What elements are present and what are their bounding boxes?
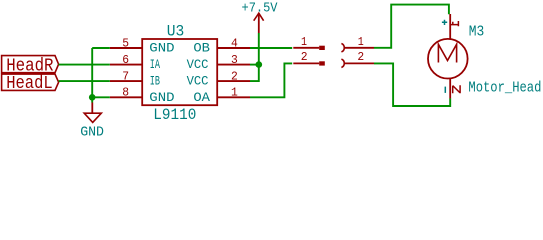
wire GND vertical rail	[91, 48, 93, 103]
pin 5 stub	[110, 47, 142, 49]
connector socket pin 1 hook	[341, 44, 344, 52]
svg-text:IB: IB	[150, 75, 160, 89]
wire pin 4 to connector	[250, 47, 292, 49]
svg-text:OA: OA	[193, 91, 210, 105]
ground symbol stem	[91, 103, 93, 113]
net label HeadL flag	[2, 74, 59, 90]
IC U3 body	[142, 39, 217, 105]
svg-text:OB: OB	[193, 42, 210, 56]
connector socket pin 2 hook	[341, 59, 344, 67]
svg-text:2: 2	[231, 70, 238, 84]
svg-text:L9110: L9110	[153, 106, 196, 124]
svg-text:IA: IA	[150, 58, 160, 72]
wire pin 8 to GND rail	[92, 96, 110, 98]
motor pin 2 rotated number	[453, 85, 460, 93]
svg-text:8: 8	[122, 86, 129, 100]
svg-text:M3: M3	[469, 25, 485, 41]
svg-text:4: 4	[231, 36, 238, 50]
net label HeadR flag	[2, 56, 59, 73]
connector socket pin 2 line	[345, 62, 374, 64]
wire connector pin 1 to motor plus	[374, 5, 449, 48]
connector socket pin 1 line	[345, 47, 374, 49]
connector plug pin 1 line	[293, 47, 319, 49]
pin 7 stub	[110, 80, 142, 82]
junction dot GND rail	[89, 94, 96, 101]
junction dot +7.5V	[255, 61, 262, 68]
svg-text:U3: U3	[167, 23, 185, 41]
motor M3 top terminal stem	[449, 14, 451, 39]
motor M3 bottom terminal stem	[449, 78, 451, 98]
wire pin 2 up to junction	[250, 65, 259, 82]
connector plug pin 1 contact square	[319, 46, 325, 50]
svg-text:GND: GND	[149, 42, 174, 56]
pin 3 stub	[217, 64, 250, 66]
pin 2 stub	[217, 80, 250, 82]
svg-text:7: 7	[122, 70, 129, 84]
connector plug pin 2 line	[293, 62, 319, 64]
pin 8 stub	[110, 96, 142, 98]
motor pin 1 rotated number	[451, 21, 459, 26]
wire HeadL to pin 7	[59, 80, 110, 82]
svg-text:5: 5	[122, 36, 129, 50]
wire pin 5 to GND rail	[92, 47, 110, 49]
pin 6 stub	[110, 64, 142, 66]
svg-text:1: 1	[358, 35, 364, 49]
supply arrow head	[254, 13, 264, 21]
wire pin 3 to junction	[250, 64, 259, 66]
svg-text:6: 6	[122, 53, 129, 67]
motor M3 body circle	[428, 39, 468, 79]
svg-text:2: 2	[301, 50, 308, 64]
svg-text:3: 3	[231, 53, 238, 67]
wire pin 1 to connector pin 2	[250, 63, 292, 97]
svg-text:VCC: VCC	[187, 75, 209, 89]
motor plus terminal label	[442, 20, 447, 25]
connector plug pin 2 contact square	[319, 61, 325, 65]
wire connector pin 2 to motor minus	[374, 63, 450, 106]
svg-text:VCC: VCC	[187, 58, 209, 72]
ground symbol triangle	[84, 113, 101, 122]
svg-text:1: 1	[231, 86, 238, 100]
svg-text:GND: GND	[149, 91, 174, 105]
motor M letter	[438, 44, 456, 62]
svg-text:2: 2	[357, 50, 364, 64]
svg-text:HeadL: HeadL	[6, 74, 53, 94]
supply arrow stem	[258, 13, 260, 33]
wire HeadR to pin 6	[59, 64, 110, 66]
svg-text:GND: GND	[80, 126, 104, 141]
pin 4 stub	[217, 47, 250, 49]
svg-text:1: 1	[301, 35, 307, 49]
motor minus terminal label	[444, 87, 446, 93]
pin 1 stub	[217, 96, 250, 98]
svg-text:Motor_Head: Motor_Head	[468, 79, 541, 96]
wire +7.5V vertical	[258, 33, 260, 65]
